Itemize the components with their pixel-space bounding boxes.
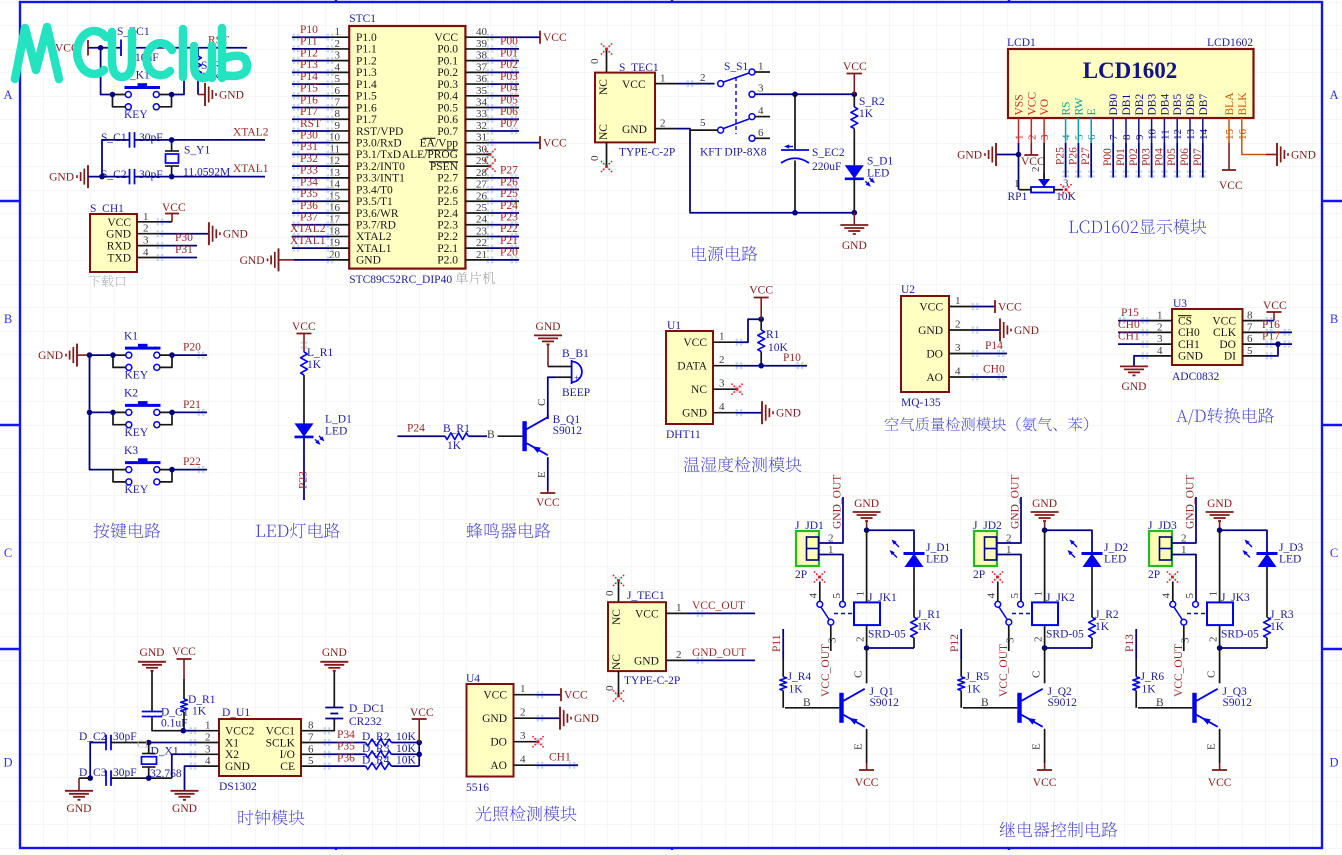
wire LCD DB0 [1112, 143, 1114, 178]
svg-text:B: B [1156, 697, 1164, 709]
wire D_R4 to VCC rail [391, 765, 419, 767]
svg-text:P14: P14 [300, 71, 318, 83]
svg-text:2: 2 [205, 732, 211, 744]
svg-text:J_R1: J_R1 [917, 609, 941, 621]
node k1 right [169, 352, 175, 358]
no connect X (relay J_JK3 pin4) [1169, 574, 1171, 576]
svg-text:J_R3: J_R3 [1270, 609, 1294, 621]
wire pin2 GND [972, 329, 1000, 331]
pin 5 ADC0832 [1243, 355, 1267, 357]
svg-text:VCC_OUT: VCC_OUT [1173, 644, 1185, 697]
svg-text:S_S1: S_S1 [724, 61, 749, 73]
svg-text:P1.6: P1.6 [356, 102, 377, 114]
svg-text:C: C [4, 546, 12, 560]
svg-text:NC: NC [691, 384, 707, 396]
wire P34 [324, 742, 366, 744]
resistor D_R3 [366, 751, 392, 758]
potentiometer RP1 [1038, 179, 1050, 187]
svg-text:B: B [487, 429, 495, 441]
svg-text:5: 5 [831, 593, 843, 599]
svg-text:S9012: S9012 [553, 425, 583, 437]
node X2 junction [146, 775, 152, 781]
wire gnd to LED branch [1045, 530, 1092, 553]
pin 1 DS1302 [196, 730, 219, 732]
svg-text:6: 6 [1086, 134, 1098, 140]
svg-text:P0.2: P0.2 [437, 67, 458, 79]
svg-text:E: E [853, 743, 865, 750]
wire LCD DB7 [1202, 143, 1204, 178]
node k1 left [110, 352, 116, 358]
wire coil to J_R1 [867, 647, 914, 649]
svg-text:12: 12 [1172, 129, 1184, 140]
svg-text:VCC: VCC [919, 302, 943, 314]
svg-text:CH1: CH1 [1178, 339, 1200, 351]
svg-text:XTAL1: XTAL1 [290, 235, 326, 247]
resistor J_R4 [782, 659, 784, 677]
svg-text:D_R4: D_R4 [362, 755, 390, 767]
svg-text:P10: P10 [300, 24, 318, 36]
wire pin4 stub [819, 582, 821, 602]
caption clock module [238, 810, 253, 825]
svg-text:P3.1/TxD: P3.1/TxD [356, 149, 401, 161]
resistor J_R2 [1089, 617, 1096, 638]
svg-text:P2.4: P2.4 [437, 208, 458, 220]
svg-text:VCC: VCC [107, 217, 131, 229]
svg-text:1: 1 [955, 295, 961, 307]
svg-text:D: D [1329, 756, 1338, 770]
transistor J_Q2 [1017, 693, 1021, 723]
svg-text:PSEN: PSEN [430, 161, 459, 173]
pin 2 MQ-135 [949, 329, 972, 331]
caption light module [476, 806, 492, 821]
svg-text:P31: P31 [175, 244, 193, 256]
svg-text:1K: 1K [1095, 621, 1110, 633]
wire LCD DB6 [1189, 143, 1191, 178]
svg-text:VCC: VCC [622, 79, 646, 91]
svg-text:BEEP: BEEP [562, 387, 590, 399]
resistor L_R1 [301, 352, 308, 375]
svg-text:LED: LED [325, 425, 347, 437]
svg-text:4: 4 [758, 105, 764, 117]
svg-text:VCC: VCC [564, 690, 588, 702]
power port VCC (DHT11) [760, 298, 762, 320]
wire coil top [1219, 530, 1221, 602]
svg-text:P04: P04 [1153, 148, 1165, 166]
wire S_EC1 to RST [133, 47, 247, 49]
wire pin6 P17 [1266, 343, 1292, 345]
ground (crystal clock) [79, 777, 90, 779]
svg-text:GND_OUT: GND_OUT [692, 647, 746, 659]
svg-text:NC: NC [598, 124, 610, 140]
wire GND_OUT [688, 659, 755, 661]
svg-text:J_R5: J_R5 [966, 671, 990, 683]
svg-text:E: E [1206, 743, 1218, 750]
svg-text:1K: 1K [789, 684, 804, 696]
wire emitter [866, 729, 868, 763]
svg-text:5: 5 [1073, 134, 1085, 140]
wire VSS down [1018, 143, 1020, 190]
wire coil bottom [866, 625, 868, 648]
svg-text:XTAL1: XTAL1 [356, 243, 392, 255]
pin 1 ADC0832 [1148, 320, 1172, 322]
pin 4 DHT11 [713, 412, 736, 414]
svg-text:D_X1: D_X1 [151, 746, 179, 758]
wire collector down [866, 648, 868, 683]
svg-text:P01: P01 [500, 47, 518, 59]
power port VCC (ADC) [1273, 312, 1275, 321]
wire net P36 [292, 212, 330, 214]
svg-text:C: C [1031, 671, 1043, 678]
svg-text:P03: P03 [1141, 148, 1153, 166]
wire gnd to keys rail [77, 354, 90, 356]
wire emitter [1044, 729, 1046, 763]
svg-text:P1.7: P1.7 [356, 114, 377, 126]
svg-text:S_Y1: S_Y1 [184, 145, 210, 157]
svg-text:X2: X2 [225, 749, 239, 761]
svg-text:P3.5/T1: P3.5/T1 [356, 196, 393, 208]
wire D_R3 to VCC rail [391, 753, 419, 755]
wire pin3 P14 [972, 353, 1007, 355]
wire X2 jog [172, 754, 196, 778]
wire D_C2 left rail [90, 743, 106, 779]
wire pin4 gnd [185, 766, 197, 791]
wire pin1 to VCC [160, 221, 172, 223]
svg-text:P2.1: P2.1 [437, 243, 458, 255]
wire pin1 VCC [537, 694, 562, 696]
pin 1 5516 [514, 694, 537, 696]
pin 1 J_TEC1 [666, 612, 688, 614]
svg-text:VCC: VCC [635, 609, 659, 621]
svg-text:E: E [1086, 108, 1098, 115]
pin 8 ADC0832 [1243, 320, 1267, 322]
svg-text:10K: 10K [396, 743, 417, 755]
node coil-collector junction [1042, 645, 1048, 651]
wire net RST [292, 130, 330, 132]
svg-text:1K: 1K [447, 440, 462, 452]
node relay J_JD1 gnd junction [864, 527, 870, 533]
svg-text:P16: P16 [1262, 319, 1280, 331]
svg-text:1: 1 [1014, 135, 1026, 141]
svg-text:P17: P17 [1262, 331, 1280, 343]
svg-text:P1.3: P1.3 [356, 67, 377, 79]
svg-text:LCD1: LCD1 [1007, 37, 1036, 49]
svg-text:CH0: CH0 [1118, 319, 1140, 331]
svg-text:P11: P11 [771, 634, 783, 652]
svg-text:0: 0 [589, 58, 601, 64]
wire emitter down [547, 457, 549, 490]
overline EA [423, 137, 436, 139]
svg-text:DB2: DB2 [1134, 94, 1146, 116]
svg-text:P27: P27 [1080, 147, 1092, 165]
wire net P10 [292, 36, 330, 38]
svg-text:1: 1 [1014, 178, 1020, 190]
svg-text:A: A [3, 88, 12, 102]
svg-text:VCC_OUT: VCC_OUT [692, 600, 745, 612]
svg-text:P3.4/T0: P3.4/T0 [356, 184, 393, 196]
wire LCD DB3 [1151, 143, 1153, 178]
wire LCD DB2 [1138, 143, 1140, 178]
svg-text:P13: P13 [1124, 634, 1136, 652]
node caps junction [99, 174, 105, 180]
svg-text:P37: P37 [300, 212, 318, 224]
svg-text:10: 10 [1147, 129, 1159, 141]
svg-text:1: 1 [1033, 591, 1045, 597]
svg-text:S9012: S9012 [1048, 697, 1078, 709]
wire net P02 [490, 71, 519, 73]
svg-text:GND_OUT: GND_OUT [1010, 475, 1022, 529]
svg-text:VCC: VCC [1219, 180, 1243, 192]
svg-text:U2: U2 [901, 284, 915, 296]
pin 1 S_CH1 [137, 221, 160, 223]
node k2 right [169, 410, 175, 416]
svg-text:1K: 1K [1142, 684, 1157, 696]
svg-text:D_R1: D_R1 [188, 694, 216, 706]
wire pot pin1 [1019, 189, 1031, 191]
wire P24 to B_R1 [398, 435, 446, 437]
svg-text:XTAL1: XTAL1 [233, 163, 269, 175]
node X1 junction [146, 740, 152, 746]
svg-text:DB5: DB5 [1172, 94, 1184, 116]
resistor B_R1 [468, 435, 487, 437]
wire K3 to P22 [172, 469, 207, 471]
svg-text:1: 1 [660, 73, 666, 85]
wire net P31 [292, 153, 330, 155]
svg-text:3: 3 [1180, 637, 1192, 643]
svg-text:DB0: DB0 [1108, 94, 1120, 116]
svg-text:2: 2 [660, 118, 666, 130]
node relay J_JD3 gnd junction [1217, 527, 1223, 533]
wire VCC col [1030, 143, 1032, 155]
svg-text:DO: DO [490, 737, 507, 749]
svg-text:1K: 1K [192, 706, 207, 718]
node keys rail 0 [87, 352, 93, 358]
svg-text:30pF: 30pF [139, 132, 163, 144]
node vcc rail 2 [416, 752, 422, 758]
wire BLK to GND [1242, 143, 1266, 155]
svg-text:P05: P05 [500, 94, 518, 106]
svg-text:D_C3: D_C3 [79, 767, 107, 779]
svg-text:GND: GND [957, 150, 982, 162]
ground (reset) [204, 83, 206, 106]
transistor B_Q1 [522, 421, 526, 451]
svg-text:P3.2/INT0: P3.2/INT0 [356, 161, 405, 173]
svg-text:6: 6 [758, 127, 764, 139]
pin 3 DS1302 [196, 753, 219, 755]
pin 7 ADC0832 [1243, 331, 1267, 333]
svg-text:J_R4: J_R4 [788, 671, 812, 683]
svg-text:DI: DI [1224, 351, 1236, 363]
wire pin3 P30 [160, 245, 197, 247]
pin 1 J_JD1 wire to switch [819, 555, 843, 602]
svg-text:1: 1 [1006, 544, 1012, 556]
wire key right up to RST wire [172, 48, 184, 95]
svg-text:P32: P32 [300, 153, 318, 165]
svg-text:P24: P24 [407, 423, 425, 435]
svg-text:S_C1: S_C1 [101, 132, 127, 144]
wire net P16 [292, 107, 330, 109]
wire coil top [866, 530, 868, 602]
svg-text:AO: AO [490, 760, 507, 772]
svg-text:SRD-05: SRD-05 [1221, 629, 1259, 641]
wire switch pin5 [690, 129, 718, 131]
svg-text:VCC_OUT: VCC_OUT [998, 644, 1010, 697]
svg-text:P25: P25 [1055, 147, 1067, 165]
svg-text:16: 16 [1237, 129, 1249, 141]
wire net P32 [292, 165, 330, 167]
svg-text:EA/Vpp: EA/Vpp [420, 137, 459, 149]
svg-text:5: 5 [1009, 593, 1021, 599]
wire LED to rail [853, 179, 855, 213]
wire S_R2 to LED [853, 129, 855, 166]
caption AD module [1176, 410, 1188, 422]
svg-text:NC: NC [611, 654, 623, 670]
wire P15 [1118, 320, 1148, 322]
LED S_D1 [845, 165, 864, 179]
no connect X (J_TEC1 bottom) [618, 671, 620, 696]
wire pin2 to GND [160, 233, 209, 235]
wire VCC_OUT [688, 612, 755, 614]
svg-text:P05: P05 [1166, 148, 1178, 166]
pin 2 S_TEC1 [655, 128, 676, 130]
no connect X [487, 163, 489, 165]
ground (STC1 pin20) [278, 248, 280, 271]
wire pin4 CH1 [537, 764, 579, 766]
svg-text:VCC: VCC [292, 321, 316, 333]
svg-text:2: 2 [828, 533, 834, 545]
wire pin4 stub [1172, 582, 1174, 602]
svg-text:2: 2 [1030, 167, 1042, 173]
svg-text:GND: GND [622, 124, 647, 136]
svg-text:VCC: VCC [434, 32, 458, 44]
svg-text:RST/VPD: RST/VPD [356, 126, 403, 138]
ground (crystal) [87, 165, 89, 188]
svg-text:D_R2: D_R2 [362, 731, 390, 743]
wire GND to S_C2 [88, 176, 130, 178]
resistor S_R2 [853, 94, 855, 107]
svg-text:3: 3 [520, 730, 526, 742]
svg-text:2: 2 [955, 319, 961, 331]
svg-text:XTAL2: XTAL2 [290, 223, 326, 235]
overline PROG [425, 149, 458, 151]
svg-text:P35: P35 [300, 188, 318, 200]
svg-text:P23: P23 [298, 471, 310, 489]
wire net XTAL2 [292, 235, 330, 237]
svg-text:MQ-135: MQ-135 [901, 397, 941, 409]
no connect X (J_TEC1 top) [618, 581, 620, 603]
wire pin1 up to R1 [736, 319, 761, 342]
svg-text:2: 2 [1208, 637, 1220, 643]
wire S_C1 right to XTAL2 [135, 139, 266, 141]
svg-text:C1: C1 [137, 740, 149, 751]
svg-text:P01: P01 [1115, 148, 1127, 166]
svg-text:LCD1602: LCD1602 [1083, 58, 1178, 83]
svg-text:2: 2 [1033, 637, 1045, 643]
svg-text:K2: K2 [124, 388, 138, 400]
svg-text:ALE/PROG: ALE/PROG [402, 149, 458, 161]
wire gnd to LED branch [1220, 530, 1267, 553]
svg-text:P2.5: P2.5 [437, 196, 458, 208]
svg-text:2: 2 [676, 649, 682, 661]
svg-text:P16: P16 [300, 94, 318, 106]
svg-text:CLK: CLK [1213, 327, 1237, 339]
svg-text:GND_OUT: GND_OUT [1185, 475, 1197, 529]
pin 4 ADC0832 [1148, 355, 1172, 357]
svg-text:P36: P36 [300, 200, 318, 212]
svg-text:4: 4 [719, 401, 725, 413]
wire pin4 P31 [160, 257, 197, 259]
svg-text:5: 5 [1184, 593, 1196, 599]
svg-text:P26: P26 [1067, 147, 1079, 165]
svg-text:VCC: VCC [998, 302, 1022, 314]
svg-text:GND: GND [634, 656, 659, 668]
svg-text:VCC: VCC [843, 61, 867, 73]
wire net P26 [490, 189, 519, 191]
svg-text:5: 5 [308, 755, 314, 767]
caption key circuit [94, 523, 110, 539]
wire to VCC [490, 36, 540, 38]
svg-text:J_TEC1: J_TEC1 [627, 590, 665, 602]
wire net P20 [490, 259, 519, 261]
svg-text:KEY: KEY [124, 109, 148, 121]
wire CH0 [1118, 331, 1148, 333]
wire S_C1 left [102, 140, 130, 177]
wire D_C1 to pin1 [152, 717, 183, 731]
ground (ADC0832) [1120, 365, 1148, 367]
svg-text:GND: GND [172, 803, 197, 815]
svg-text:SCLK: SCLK [266, 737, 296, 749]
svg-text:LED: LED [867, 167, 889, 179]
wire coil top [1044, 530, 1046, 602]
wire P12 stub [960, 629, 962, 659]
no connect X (DHT NC) [734, 386, 736, 388]
wire collector down [1044, 648, 1046, 683]
svg-text:2: 2 [143, 223, 149, 235]
svg-text:LCD1602: LCD1602 [1207, 37, 1253, 49]
svg-text:2P: 2P [1148, 569, 1160, 581]
svg-text:CH0: CH0 [983, 364, 1005, 376]
wire net P33 [292, 177, 330, 179]
svg-text:VCC: VCC [1208, 777, 1232, 789]
svg-text:10K: 10K [396, 755, 417, 767]
svg-text:1: 1 [1157, 310, 1163, 322]
svg-text:GND: GND [1014, 325, 1039, 337]
wire junction down to key [101, 48, 113, 95]
wire pin7 P16 [1266, 331, 1292, 333]
svg-text:TXD: TXD [107, 253, 131, 265]
svg-text:P21: P21 [500, 235, 518, 247]
wire VO to pot [1043, 143, 1045, 179]
wire gnd to LED branch [867, 530, 914, 553]
ground (power circuit) [853, 213, 855, 225]
relay switch contacts J_JK3 [1170, 601, 1176, 607]
wire P36 [324, 765, 366, 767]
ground (5516) [559, 707, 561, 730]
svg-text:VCC: VCC [855, 777, 879, 789]
wire pin1 VCC [972, 306, 995, 308]
power port VCC (buzzer) [547, 490, 549, 493]
svg-text:2: 2 [1026, 135, 1038, 141]
ground (DHT11) [761, 401, 763, 424]
svg-text:P06: P06 [500, 106, 518, 118]
power port VCC (S_CH1) [171, 214, 173, 222]
wire LCD DB4 [1163, 143, 1165, 178]
resistor D_R1 [183, 679, 185, 699]
power port VCC (LCD) [1024, 154, 1038, 156]
wire pot pin3 stub [1054, 189, 1063, 191]
LED L_D1 [295, 423, 314, 437]
svg-text:4: 4 [520, 754, 526, 766]
svg-text:A: A [1329, 88, 1338, 102]
